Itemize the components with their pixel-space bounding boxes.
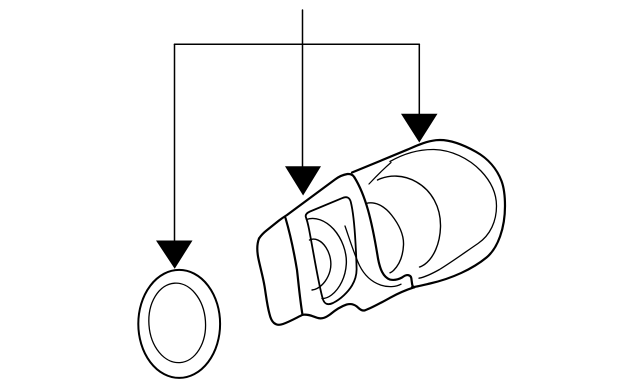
bracket outer top edge	[259, 174, 355, 239]
arrow left	[156, 241, 193, 269]
wire leader stem vertical	[302, 10, 304, 170]
bracket bottom wavy edge	[303, 287, 415, 318]
bracket flange left and bottom edge	[257, 239, 302, 325]
arrow middle	[285, 166, 321, 195]
bracket opening arc small	[310, 239, 331, 290]
housing cone arc small	[366, 203, 404, 273]
arrow right	[401, 114, 438, 143]
o-ring outer ellipse	[138, 270, 220, 378]
bracket pipe silhouette thin line through opening	[345, 226, 401, 287]
housing dome outer outline	[352, 140, 505, 287]
bracket right edge with foot hook and step face	[355, 178, 415, 288]
o-ring inner ellipse	[146, 281, 208, 364]
wire leader horizontal	[175, 43, 420, 45]
housing rim inner line	[390, 149, 497, 278]
bracket opening arc large	[307, 218, 347, 298]
housing neck crease	[369, 163, 391, 185]
wire leader right vertical	[418, 44, 420, 116]
wire leader left vertical	[174, 44, 176, 243]
bracket opening outline	[306, 197, 357, 304]
bracket ring left edge	[286, 218, 303, 315]
housing cone arc large	[378, 176, 441, 267]
